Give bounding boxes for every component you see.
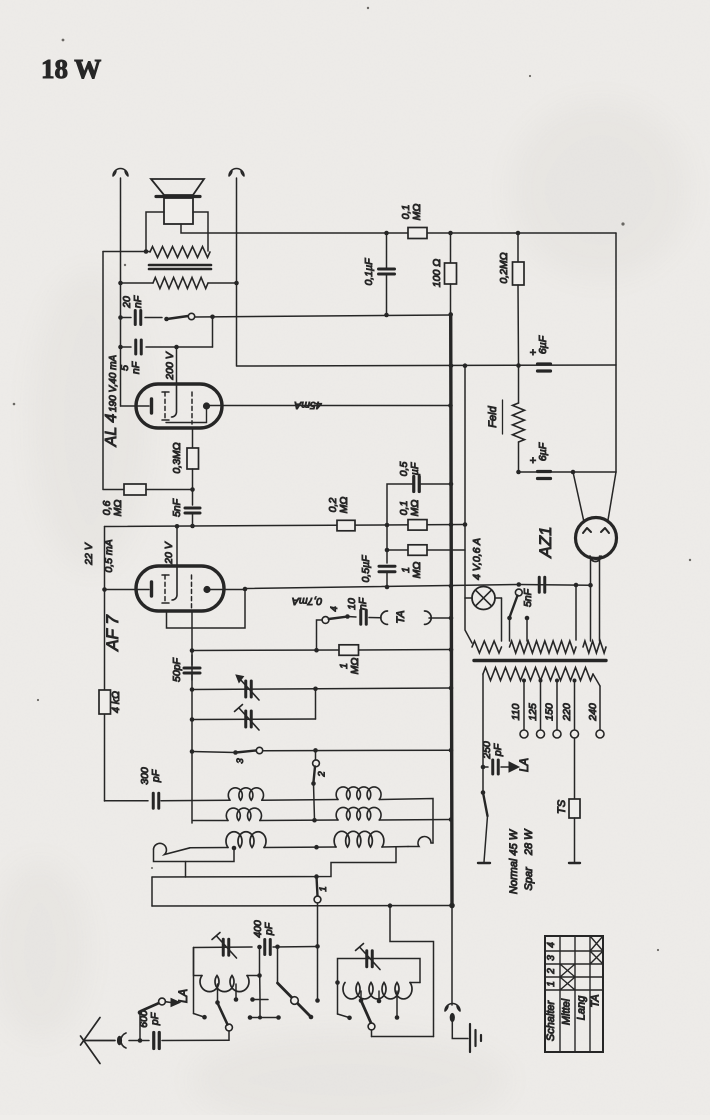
- wire bottom to left band switch: [228, 1031, 230, 1040]
- wire loop2 west down to row F: [151, 877, 153, 906]
- node bus top: [448, 312, 453, 317]
- svg-text:22 V: 22 V: [83, 542, 95, 566]
- tube AF7 anode dot: [203, 586, 210, 593]
- svg-text:45mA: 45mA: [294, 399, 321, 411]
- switch 1: [317, 877, 318, 896]
- wire coupling link: [185, 862, 187, 878]
- svg-text:240: 240: [587, 703, 599, 722]
- svg-text:Lang: Lang: [576, 995, 588, 1020]
- wire AF7 cathode lead: [105, 589, 150, 591]
- svg-text:LA: LA: [519, 758, 531, 772]
- wire voice coil right lead: [193, 212, 208, 251]
- contact stubs middle: [253, 999, 269, 1001]
- node switch4 wire: [190, 648, 195, 653]
- svg-text:20 V: 20 V: [163, 541, 175, 565]
- tube AL4 grid lead inside with hook: [172, 385, 177, 417]
- svg-text:4: 4: [546, 942, 557, 948]
- svg-text:Schalter: Schalter: [545, 999, 557, 1041]
- capacitor 5 nF grid: [185, 507, 200, 510]
- node var row1 x315: [313, 687, 318, 692]
- node feld bottom: [516, 470, 521, 475]
- node row B switch2: [312, 818, 317, 823]
- capacitor 6uF lower electrolytic: [538, 470, 551, 473]
- svg-text:200 V: 200 V: [164, 351, 176, 380]
- node 250pF junction: [481, 765, 486, 770]
- node grid line right end: [463, 522, 468, 527]
- variable capacitor C-tune: [244, 681, 247, 697]
- node AF7 anode junction: [243, 587, 248, 592]
- switch 4: [322, 617, 329, 624]
- terminal hook left (grid cap): [113, 169, 128, 177]
- node 0,1uF bottom: [384, 313, 389, 318]
- wire long top line to right side: [237, 232, 616, 234]
- node primary right on hook line: [234, 281, 239, 286]
- node trimmer row left: [194, 946, 253, 949]
- switch Normal/Spar: [482, 767, 484, 791]
- svg-text:TA: TA: [395, 610, 407, 623]
- node heater/feld: [516, 363, 521, 368]
- node row F at bus: [449, 903, 455, 909]
- lamp 4V 0,6A: [465, 597, 472, 599]
- switch 2: [315, 750, 317, 760]
- wire TA to bus: [429, 617, 451, 619]
- node switch3 row x315: [313, 748, 318, 753]
- svg-text:Feld: Feld: [487, 405, 499, 427]
- wire AZ1 anode lead left: [573, 472, 584, 522]
- node 5nF / AL4 grid lead: [174, 345, 179, 350]
- wire switch4 row: [192, 649, 339, 652]
- antenna: [81, 1018, 101, 1046]
- tube AL4 envelope: [136, 384, 222, 428]
- svg-text:LA: LA: [178, 989, 190, 1003]
- wire AVC corner down to AF7 cathode and 4k: [104, 527, 106, 802]
- speaker baffle line: [156, 195, 200, 198]
- node AZ1 left anode: [571, 470, 576, 475]
- node top line / 0,1uF: [384, 231, 389, 236]
- node 0,5uF at bus: [449, 482, 454, 487]
- svg-text:AL 4: AL 4: [103, 414, 120, 448]
- svg-text:0,3MΩ: 0,3MΩ: [171, 442, 183, 473]
- resistor 4 kOhm: [99, 690, 111, 714]
- svg-text:2: 2: [546, 968, 557, 975]
- wire switch1 down: [317, 903, 319, 946]
- node switch3 row: [190, 749, 195, 754]
- svg-text:190 V,40 mA: 190 V,40 mA: [108, 355, 119, 412]
- tube AF7 cathode bar: [150, 582, 153, 596]
- svg-text:pF: pF: [150, 769, 162, 783]
- wire antenna to 600pF: [129, 1040, 149, 1042]
- speaker magnet body: [164, 198, 193, 224]
- svg-text:Spar 28 W: Spar 28 W: [523, 828, 535, 891]
- node row B at bus: [449, 817, 454, 822]
- wire right block bottom: [372, 1036, 434, 1038]
- wire osc left frame: [194, 948, 203, 976]
- transformer mains secondary winding: [483, 668, 593, 681]
- wire B+ column from speaker down to 0,6M row: [102, 252, 104, 490]
- wire left hook vertical: [120, 178, 122, 406]
- wire voice coil left lead: [146, 212, 164, 251]
- wire x465 vertical heater-lamp: [464, 366, 466, 598]
- wire 5nF HT line east part: [519, 584, 591, 587]
- wire lamp right down to winding: [501, 598, 503, 641]
- arrow LA antenna: [509, 762, 519, 772]
- resistor 0,3 MOhm: [187, 448, 199, 469]
- tube AF7 grid 1 dashed: [164, 575, 166, 603]
- node top line / 100 Ohm: [448, 231, 453, 236]
- node 0,5uF bottom on anode line: [385, 585, 390, 590]
- node switch column top: [517, 582, 522, 587]
- node x576: [574, 583, 579, 588]
- coil oscillator left: [200, 976, 249, 992]
- node col387 1M: [385, 548, 390, 553]
- wire switch4 pivot drop: [317, 620, 323, 650]
- svg-text:Mittel: Mittel: [561, 998, 573, 1025]
- wire 400pF right down: [277, 947, 279, 983]
- capacitor 6uF upper electrolytic: [538, 362, 551, 365]
- capacitor 50 pF: [191, 655, 193, 665]
- wire row B to bus: [379, 819, 451, 822]
- svg-text:0,2MΩ: 0,2MΩ: [498, 252, 510, 283]
- node AF7 cathode: [102, 587, 107, 592]
- coil oscillator right: [343, 983, 412, 999]
- wire grid2 column x192 down from AF7: [191, 611, 193, 823]
- svg-text:50pF: 50pF: [171, 657, 183, 682]
- wire row C east: [382, 846, 408, 849]
- switch LA: [139, 1014, 141, 1041]
- trimmer capacitor: [244, 711, 247, 727]
- svg-text:3: 3: [235, 758, 246, 764]
- wire row C west: [190, 847, 228, 849]
- wire trimmer right row: [338, 959, 421, 983]
- arrow LA: [165, 1001, 171, 1004]
- ground symbol: [469, 1024, 471, 1052]
- wire row F: [152, 905, 452, 908]
- svg-text:MΩ: MΩ: [411, 204, 423, 221]
- svg-text:MΩ: MΩ: [338, 497, 350, 514]
- node row C switch1: [314, 845, 319, 850]
- capacitor 5 nF mains: [538, 577, 541, 592]
- coil L1b: [226, 808, 261, 820]
- wire AL4 screen lead down: [192, 428, 194, 448]
- node switch3 row at bus: [449, 748, 454, 753]
- wire AL4 anode to bus: [209, 405, 451, 407]
- svg-text:0,1µF: 0,1µF: [363, 258, 375, 286]
- capacitor 20 nF: [121, 317, 132, 319]
- tube AF7 grid lead inside hook: [172, 567, 177, 600]
- wire 5nF right up to tone switch wire: [212, 317, 214, 347]
- wire AF7 anode line east: [245, 585, 519, 589]
- node grid line / 5nF: [190, 524, 195, 529]
- svg-text:nF: nF: [132, 295, 144, 308]
- svg-text:1: 1: [318, 886, 329, 891]
- connector TA jack: [381, 611, 388, 624]
- node 1M row at bus: [449, 647, 454, 652]
- wire row F drop to right block: [390, 906, 434, 1037]
- node grid line / col387: [385, 523, 390, 528]
- resistor Feld field coil: [518, 366, 520, 404]
- node AL4 anode wire at bus: [448, 403, 453, 408]
- terminals voltage: [520, 730, 528, 738]
- coil L2a: [336, 787, 381, 800]
- wire right edge vertical x616: [615, 233, 617, 472]
- svg-text:4 V,0,6 A: 4 V,0,6 A: [471, 538, 483, 580]
- svg-text:nF: nF: [357, 597, 369, 610]
- transformer T1 secondary winding: [150, 247, 210, 258]
- switch 3: [233, 750, 238, 755]
- tube AF7 envelope: [136, 566, 224, 611]
- node 600pF/LA branch: [138, 1038, 143, 1043]
- switch band middle: [278, 983, 311, 1016]
- tube AL4 grid 1 dashed: [164, 392, 166, 420]
- svg-text:MΩ: MΩ: [409, 500, 421, 517]
- table X marks TA: [590, 936, 603, 951]
- svg-text:5nF: 5nF: [171, 498, 183, 517]
- svg-text:220: 220: [561, 703, 573, 722]
- node 20nF left: [118, 315, 123, 320]
- connector antenna plug: [117, 1036, 122, 1046]
- contact stub right block: [337, 983, 339, 1015]
- wire primary right lead: [208, 282, 237, 284]
- trimmer padding left: [222, 939, 225, 955]
- wire col387 down with 0,5uF: [386, 525, 388, 563]
- capacitor 250 pF: [483, 766, 488, 768]
- wire AL4 grid lead: [176, 347, 178, 385]
- svg-text:5nF: 5nF: [522, 588, 534, 607]
- node grid line at bus: [449, 522, 454, 527]
- coil L1c: [226, 832, 266, 848]
- svg-text:TA: TA: [590, 994, 602, 1007]
- svg-text:100 Ω: 100 Ω: [431, 259, 443, 287]
- wire speaker tap down to long line: [181, 224, 237, 233]
- wire row B mid: [260, 819, 338, 822]
- taps osc right: [360, 991, 362, 999]
- wire plug to ground: [452, 1020, 468, 1039]
- node 0,6M / 0,3M junction: [190, 487, 195, 492]
- fuse TS: [574, 738, 576, 799]
- svg-text:pF: pF: [492, 743, 504, 757]
- svg-text:AZ1: AZ1: [536, 526, 555, 558]
- svg-text:MΩ: MΩ: [411, 562, 423, 579]
- terminal hook right (grid cap): [229, 169, 244, 177]
- wire link rows 1-2: [315, 689, 317, 719]
- contact stub left block: [194, 1014, 205, 1018]
- resistor 1 MOhm row: [387, 549, 408, 551]
- tube AF7 grid 2 dashed: [191, 575, 193, 611]
- wire row A mid: [262, 799, 338, 802]
- resistor 0,1 MOhm grid: [408, 520, 427, 531]
- wire var cap row 2: [192, 718, 316, 721]
- bus main vertical: [451, 314, 452, 906]
- resistor 1 MOhm AF7: [339, 645, 359, 656]
- node switch1 top: [314, 874, 319, 879]
- capacitor 0,1 uF: [386, 233, 388, 268]
- switch contacts: [507, 616, 512, 621]
- node osc right coil left: [335, 980, 340, 985]
- wire right hook vertical: [236, 178, 238, 366]
- trimmer padding right: [365, 951, 368, 967]
- wire switch2 to coil row B: [314, 784, 315, 821]
- wire row B start: [193, 820, 228, 822]
- node heater line at bus: [449, 364, 454, 369]
- wire lamp left down to winding: [465, 598, 472, 643]
- wire row C mid: [264, 846, 336, 849]
- resistor 0,2 MOhm screen: [517, 233, 519, 262]
- wire AF7 anode lead: [210, 589, 245, 591]
- node filament HT takeoff: [588, 583, 593, 588]
- svg-text:3: 3: [546, 955, 557, 961]
- transformer T1 primary winding: [153, 278, 208, 289]
- wire secondary left to B+ column: [103, 251, 150, 253]
- svg-text:4: 4: [329, 606, 340, 611]
- wire HT line y472: [519, 471, 617, 473]
- svg-text:MΩ: MΩ: [112, 500, 124, 517]
- wire coupling loop 1: [154, 848, 235, 862]
- wire x576 down to primary end: [575, 585, 577, 640]
- wire switch1 column lower end: [317, 946, 319, 999]
- transformer mains core: [474, 659, 606, 662]
- transformer mains pilot winding: [472, 641, 502, 653]
- svg-text:pF: pF: [263, 922, 275, 936]
- svg-text:6µF: 6µF: [537, 335, 549, 354]
- svg-text:AF 7: AF 7: [103, 615, 122, 652]
- tube AL4 grid 2 dashed: [191, 392, 193, 424]
- tube AL4 anode dot: [203, 402, 210, 409]
- svg-text:nF: nF: [130, 361, 142, 374]
- transformer heater winding AZ1: [583, 641, 606, 653]
- svg-text:pF: pF: [149, 1012, 161, 1026]
- table X marks Mittel: [560, 977, 575, 990]
- coil osc left taps: [217, 984, 219, 1003]
- tube AZ1 envelope: [576, 518, 617, 559]
- wire AF7 screen loop: [167, 589, 246, 628]
- svg-text:125: 125: [527, 703, 539, 721]
- node var row1 at bus: [449, 686, 454, 691]
- capacitor 5 nF coupling: [121, 346, 132, 348]
- wire bus thin lower: [451, 906, 453, 1006]
- node 5nF left: [118, 345, 123, 350]
- wire var cap row 1: [192, 688, 451, 690]
- capacitor 300 pF: [105, 800, 149, 802]
- wire AVC grid line: [105, 525, 466, 527]
- wire heater line y366: [237, 365, 616, 366]
- svg-text:MΩ: MΩ: [349, 658, 361, 675]
- resistor 0,2 MOhm grid: [337, 520, 355, 531]
- node var2 row: [190, 717, 195, 722]
- capacitor 10 nF: [348, 616, 357, 619]
- coil L2b: [336, 807, 381, 820]
- node x212: [210, 315, 215, 320]
- wire osc right coil tail: [410, 982, 420, 984]
- node row F drop x390: [388, 903, 393, 908]
- speaker LS cone: [151, 179, 204, 195]
- connector bus plug: [445, 1004, 460, 1012]
- switch band left: [226, 1024, 233, 1031]
- svg-text:2: 2: [317, 771, 328, 778]
- svg-text:+: +: [530, 347, 536, 359]
- svg-text:4 kΩ: 4 kΩ: [110, 691, 122, 713]
- svg-text:0,5µF: 0,5µF: [360, 555, 372, 583]
- wire tone switch to bus: [195, 315, 451, 317]
- tube AZ1 anode plates: [583, 528, 591, 533]
- svg-text:Normal 45 W: Normal 45 W: [508, 828, 520, 894]
- switch S-tone: [164, 317, 169, 322]
- wire AZ1 anode lead right: [608, 472, 616, 520]
- tube AL4 cathode bar: [150, 399, 153, 413]
- svg-text:+: +: [530, 455, 536, 467]
- wire switch 3 row: [192, 752, 235, 753]
- node top line / 0,2M: [516, 231, 521, 236]
- coil antenna loop right: [408, 837, 433, 847]
- node switch4 drop: [314, 648, 319, 653]
- svg-text:1: 1: [546, 981, 557, 987]
- node AF7 grid on AVC line: [175, 524, 180, 529]
- svg-text:110: 110: [510, 703, 522, 720]
- wire AL4 cathode lead: [121, 405, 150, 407]
- node var1 row: [190, 687, 195, 692]
- wire 400pF left column lower: [259, 976, 261, 1000]
- wire primary left lead: [120, 282, 153, 284]
- resistor 100 Ohm: [450, 233, 452, 263]
- wire AF7 grid top lead: [176, 527, 178, 568]
- capacitor 0,5 uF anode: [379, 565, 395, 568]
- capacitor 0,5 uF decoupling: [387, 484, 412, 525]
- tube AZ1 filament: [590, 556, 601, 562]
- node 400pF right top: [275, 945, 280, 950]
- svg-text:0,7mA: 0,7mA: [292, 595, 322, 607]
- node heater/x465: [463, 363, 468, 368]
- node anode line at bus: [449, 584, 454, 589]
- svg-text:TS: TS: [556, 799, 568, 814]
- svg-text:6µF: 6µF: [537, 442, 549, 461]
- capacitor 400 pF: [257, 945, 262, 950]
- svg-text:18 W: 18 W: [41, 54, 101, 84]
- node secondary left: [144, 249, 149, 254]
- capacitor 600 pF: [152, 1033, 155, 1049]
- transformer mains primary winding: [510, 641, 577, 653]
- wire coupling loop 2: [152, 848, 396, 878]
- coil antenna loop left: [154, 843, 191, 854]
- switch voltage selector: [515, 589, 522, 596]
- wire AZ1 filament leads: [590, 558, 592, 642]
- wire row A east corner down: [379, 799, 433, 844]
- resistor 0,1 MOhm top: [408, 228, 427, 239]
- transformer T1 core: [149, 264, 211, 267]
- coil L2c: [334, 831, 384, 847]
- switch band right: [361, 1001, 371, 1024]
- svg-text:150: 150: [544, 703, 556, 721]
- node primary left on hook line: [118, 281, 123, 286]
- wire secondary left end down: [482, 674, 484, 767]
- table Schalter frame: [545, 936, 603, 1052]
- resistor 0,6 MOhm: [103, 489, 124, 491]
- svg-text:µF: µF: [409, 462, 421, 475]
- coil L1a: [228, 788, 263, 800]
- taps mains voltage: [522, 679, 526, 683]
- tube AL4 anode inner link: [166, 409, 207, 423]
